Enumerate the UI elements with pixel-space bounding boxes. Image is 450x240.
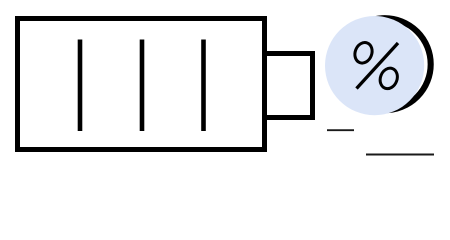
long underline	[366, 154, 434, 156]
battery terminal	[265, 54, 313, 118]
short underline	[327, 129, 354, 131]
percentage circle	[325, 16, 424, 115]
percent top o	[352, 40, 375, 66]
battery bar 1	[78, 40, 83, 132]
battery bar 2	[140, 40, 145, 132]
percent bottom o	[377, 66, 400, 92]
percent slash	[357, 43, 399, 89]
battery body	[18, 19, 265, 150]
shadow circle	[339, 18, 431, 110]
battery bar 3	[201, 40, 206, 132]
